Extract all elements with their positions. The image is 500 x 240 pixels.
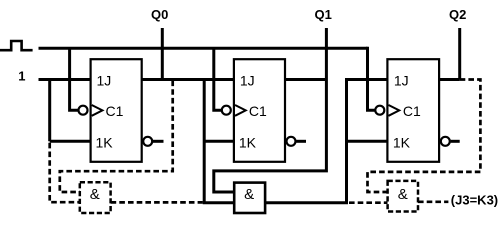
- svg-text:1J: 1J: [240, 73, 255, 89]
- svg-text:&: &: [398, 186, 408, 203]
- wire Q0 output to FF2 J: [142, 78, 234, 81]
- wire dashed AND G1 output: [111, 201, 203, 204]
- wire AND G2 output to FF3 J and K: [265, 80, 387, 203]
- svg-text:1K: 1K: [96, 135, 114, 151]
- wire clock drop to FF1 C1: [70, 48, 80, 110]
- wire FF1 inverted output stub: [153, 140, 164, 143]
- svg-text:C1: C1: [106, 103, 124, 119]
- svg-text:1K: 1K: [393, 135, 411, 151]
- svg-text:1J: 1J: [394, 73, 409, 89]
- and-gate G3 (dashed optional): [388, 181, 418, 212]
- wire Q2 output: [439, 78, 459, 81]
- wire dashed Q0 to AND G1: [60, 81, 173, 193]
- flip-flop FF3 body: [375, 59, 450, 162]
- wire FF2 inverted output stub: [296, 140, 306, 143]
- wire J1-K1 tie: [50, 80, 91, 142]
- wire Q0 to FF2 K and AND G2: [204, 80, 234, 203]
- wire dashed Q2 feedback to AND G3: [368, 80, 481, 193]
- svg-text:1: 1: [18, 68, 25, 83]
- wire clock bus: [39, 47, 368, 50]
- svg-text:(J3=K3): (J3=K3): [451, 192, 498, 207]
- svg-text:Q1: Q1: [315, 7, 332, 22]
- wire dashed K1 net to AND G1: [50, 143, 80, 202]
- wire clock drop to FF3 C1: [368, 47, 378, 110]
- wire clock drop to FF2 C1: [214, 48, 223, 110]
- svg-text:1J: 1J: [97, 73, 112, 89]
- node 1 constant input wire: [39, 78, 91, 81]
- flip-flop FF1 body: [79, 59, 153, 162]
- flip-flop FF2 body: [222, 59, 296, 162]
- clock pulse symbol: [0, 41, 33, 50]
- wire Q1 output: [285, 78, 326, 81]
- wire FF3 inverted output stub: [451, 140, 460, 143]
- svg-text:C1: C1: [249, 103, 267, 119]
- wire dashed AND G3 output: [418, 200, 448, 203]
- wire Q1 label lead and drop to AND G2: [214, 28, 327, 192]
- wire Q2 label lead: [458, 28, 461, 80]
- svg-text:Q2: Q2: [449, 7, 466, 22]
- and-gate G1 (dashed optional): [80, 182, 111, 213]
- svg-text:Q0: Q0: [151, 7, 168, 22]
- wire Q0 label lead: [161, 28, 164, 80]
- svg-text:1K: 1K: [239, 135, 257, 151]
- wire dashed G2 output branch to AND G3: [349, 201, 388, 204]
- svg-text:C1: C1: [403, 103, 421, 119]
- svg-text:&: &: [244, 186, 254, 203]
- and-gate G2: [234, 183, 265, 213]
- svg-text:&: &: [90, 186, 100, 203]
